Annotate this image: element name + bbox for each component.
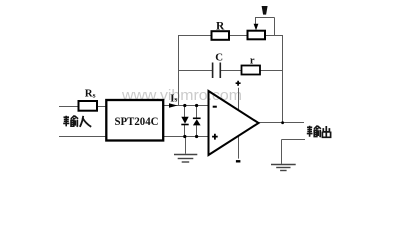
- junction dot D1 top: [183, 104, 186, 107]
- diode D2 (pointing up): [193, 118, 201, 125]
- op-amp non-inverting input label +: [212, 134, 218, 140]
- op-amp positive supply label +: [236, 81, 241, 86]
- wire wiper stem: [255, 18, 257, 24]
- wire between R and potentiometer: [229, 35, 248, 37]
- diode D1 (pointing down): [181, 117, 188, 125]
- potentiometer adjust marker: [262, 6, 268, 15]
- wire wiper horizontal: [255, 17, 275, 19]
- wire D2 anode stem: [196, 125, 198, 136]
- SPT204C box U1: [106, 100, 163, 141]
- svg-text:Is: Is: [170, 93, 177, 104]
- svg-text:C: C: [215, 52, 223, 64]
- wire ground rail under diodes: [163, 136, 208, 138]
- resistor Rs: [79, 101, 98, 111]
- wire input top left: [59, 106, 79, 108]
- wire ground stem G1: [185, 137, 187, 154]
- ground G1: [174, 155, 197, 163]
- wire r to right vertical: [260, 70, 283, 72]
- current arrow Is: [169, 103, 178, 108]
- op-amp inverting input label -: [213, 106, 217, 108]
- wire feedback right vertical: [282, 36, 284, 123]
- wire D2 cathode stem: [196, 106, 198, 119]
- potentiometer RP: [248, 31, 266, 40]
- wire potentiometer to right corner: [265, 35, 283, 37]
- wire C to r: [220, 70, 241, 72]
- resistor r: [242, 66, 261, 75]
- label 输入 (input) glyph 入: [80, 116, 91, 127]
- wire output lower stub: [282, 139, 306, 141]
- wire D1 anode stem: [184, 106, 186, 118]
- resistor R: [212, 31, 230, 40]
- wire op-amp negative supply stem: [238, 136, 240, 159]
- wire top branch left: [178, 35, 212, 37]
- potentiometer wiper arrowhead: [254, 24, 259, 31]
- junction dot D2 bottom: [195, 135, 198, 138]
- wire wiper return vertical: [274, 18, 276, 36]
- wire middle branch left to C: [178, 70, 213, 72]
- wire Rs to box: [97, 106, 106, 108]
- op-amp U2 triangle: [209, 91, 259, 155]
- wire output ground vertical: [281, 140, 283, 164]
- label 输入 (input) glyph 输: [63, 116, 78, 127]
- ground G2: [271, 165, 296, 171]
- junction dot D2 top: [195, 104, 198, 107]
- capacitor C plates: [213, 63, 221, 79]
- wire op-amp positive supply stem: [238, 88, 240, 111]
- op-amp negative supply label -: [236, 160, 241, 162]
- svg-text:r: r: [250, 55, 255, 66]
- wire D1 cathode stem: [184, 125, 186, 137]
- wire Is from box to op-amp: [163, 105, 208, 107]
- label 输出 (output) glyph 输: [307, 126, 321, 137]
- svg-text:SPT204C: SPT204C: [115, 114, 159, 128]
- junction dot D1 bottom: [183, 135, 186, 138]
- wire output: [259, 122, 305, 124]
- wire feedback left vertical: [178, 36, 180, 106]
- junction dot feedback/output: [281, 121, 284, 124]
- svg-text:R: R: [216, 20, 225, 32]
- label 输出 (output) glyph 出: [322, 126, 330, 137]
- wire input bottom: [59, 136, 106, 138]
